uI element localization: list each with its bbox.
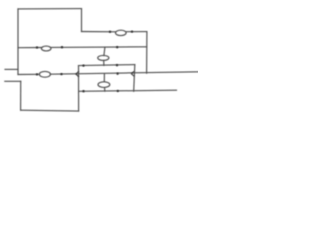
wire: meter M4 branch upper	[104, 47, 105, 55]
wire: main middle line (left of meter M3)	[18, 73, 40, 75]
meter M5	[98, 82, 110, 88]
current arrow on main line at x=134 (points left)	[131, 71, 134, 76]
junction dot (83.5,65.6)	[82, 64, 84, 66]
wire: meter M5 branch upper	[103, 74, 105, 82]
meter M2	[41, 46, 51, 51]
wire: row3 y=65.4	[79, 65, 135, 66]
wire: left vertical bus	[17, 9, 19, 75]
wire: row2 y=47 (left of meter M2)	[18, 47, 42, 49]
wire: upper row y=31.6 (right of meter M1)	[126, 31, 147, 33]
junction dot (61.5,74.1)	[60, 73, 62, 75]
wire: right vertical x=146.7	[146, 32, 148, 74]
wire: vertical x=134	[134, 65, 135, 92]
wire: meter M5 branch lower	[104, 88, 106, 92]
terminal stub B (lower left input)	[5, 80, 21, 82]
junction dot (62,47.2)	[61, 46, 63, 48]
wire: row2 y=47 (right of meter M2)	[51, 46, 147, 49]
junction dot (117.6,73.7)	[116, 73, 118, 75]
junction dot (117,65.2)	[116, 64, 118, 66]
wire: bottom horizontal	[21, 109, 79, 112]
wire: lower-left vertical x=20.6	[20, 81, 22, 110]
wire: meter M4 branch lower	[103, 60, 105, 65]
terminal stub A (upper left input)	[5, 68, 18, 70]
wire: row4 y=91	[79, 90, 177, 91]
current arrow on main line at x=78 (points left)	[76, 72, 79, 77]
junction dot (37,47.5)	[36, 46, 38, 48]
junction dot (110,31.8)	[109, 31, 111, 33]
meter M1	[116, 30, 127, 35]
wire: upper row y=31.6 (left of meter M1)	[82, 31, 116, 33]
junction dot (117.8,91.0)	[117, 90, 119, 92]
wire: main middle line (right of meter M3 to right edge)	[50, 72, 198, 74]
junction dot (37,74.4)	[36, 73, 38, 75]
junction dot (83.5,91.2)	[82, 90, 84, 92]
wire: top horizontal	[18, 8, 82, 10]
meter M3	[39, 71, 50, 77]
wire: branch vertical x=78.5	[78, 66, 80, 112]
junction dot (132,31.6)	[131, 30, 133, 32]
meter M4	[98, 55, 109, 60]
wire: vertical drop at x=81.5	[81, 9, 83, 32]
junction dot (117.2,47.2)	[116, 46, 118, 48]
